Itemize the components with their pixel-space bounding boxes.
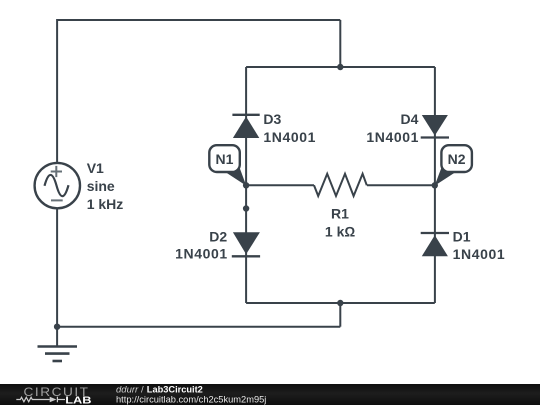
svg-text:1 kHz: 1 kHz bbox=[87, 196, 124, 212]
svg-text:http://circuitlab.com/ch2c5kum: http://circuitlab.com/ch2c5kum2m95j bbox=[116, 394, 266, 404]
svg-text:Lab3Circuit2: Lab3Circuit2 bbox=[147, 385, 203, 395]
svg-text:D1: D1 bbox=[453, 229, 471, 245]
svg-text:D2: D2 bbox=[209, 229, 227, 245]
svg-text:R1: R1 bbox=[331, 205, 349, 221]
svg-text:1N4001: 1N4001 bbox=[175, 246, 228, 262]
svg-text:D3: D3 bbox=[263, 111, 281, 127]
svg-text:1N4001: 1N4001 bbox=[263, 129, 316, 145]
svg-text:1 kΩ: 1 kΩ bbox=[325, 224, 355, 240]
svg-text:V1: V1 bbox=[87, 160, 104, 176]
svg-text:N2: N2 bbox=[448, 151, 466, 167]
svg-text:LAB: LAB bbox=[65, 396, 91, 405]
svg-text:N1: N1 bbox=[216, 151, 234, 167]
svg-text:1N4001: 1N4001 bbox=[453, 246, 506, 262]
svg-text:D4: D4 bbox=[400, 111, 418, 127]
svg-text:1N4001: 1N4001 bbox=[366, 129, 419, 145]
svg-text:sine: sine bbox=[87, 178, 115, 194]
